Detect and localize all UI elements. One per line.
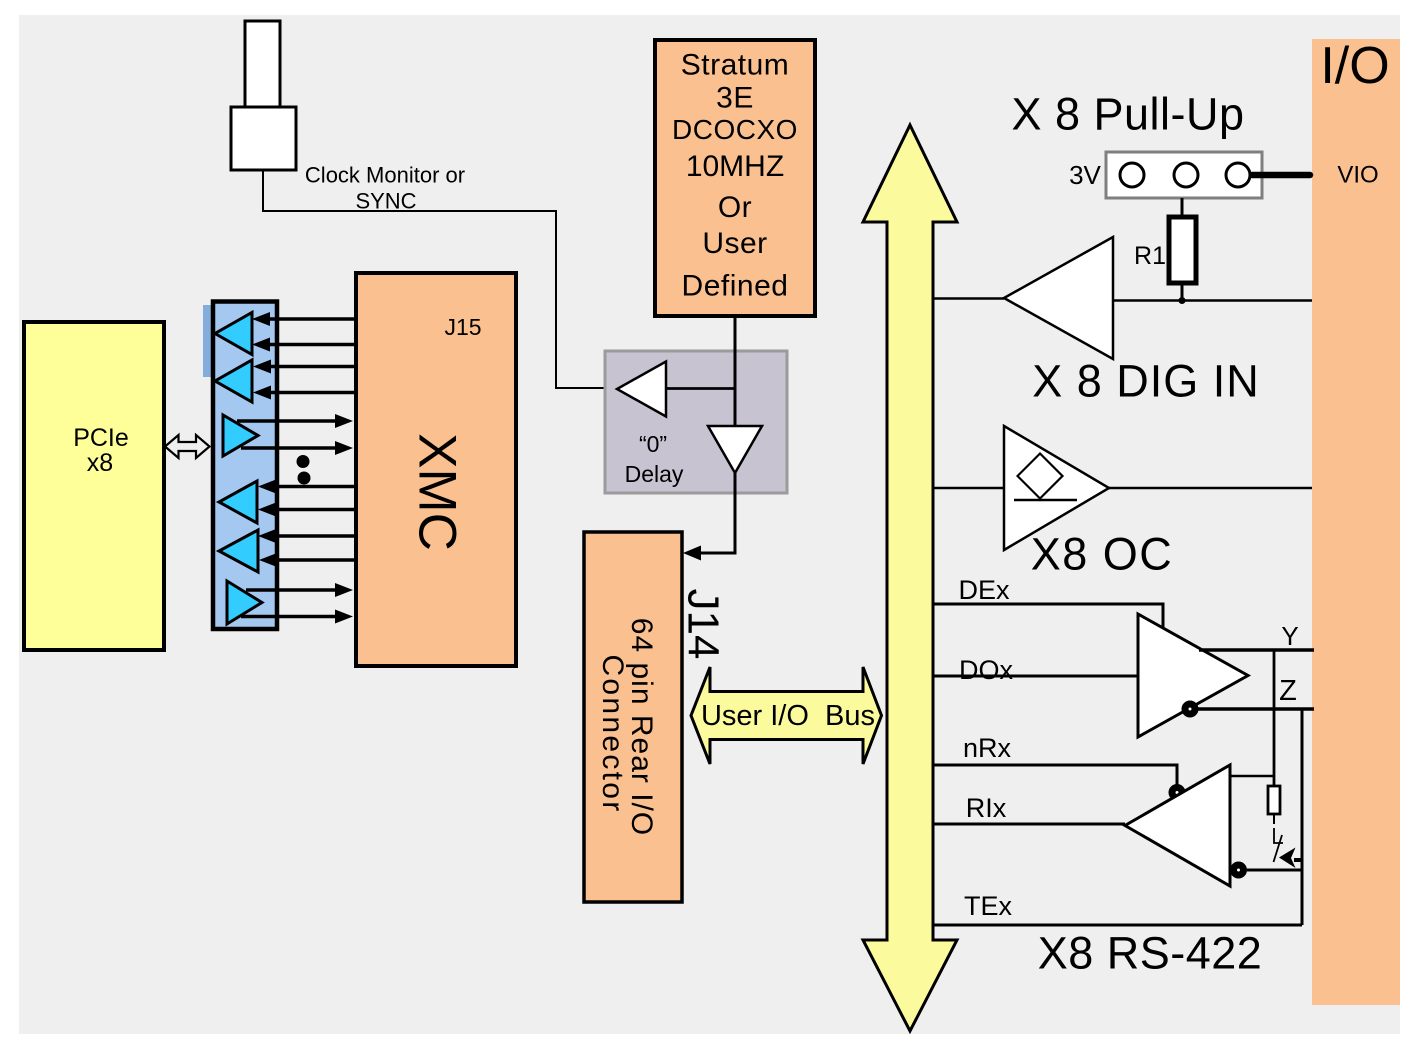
receiver U5 [1125, 765, 1230, 886]
svg-text:Y: Y [1281, 621, 1298, 651]
I/O bar [1312, 39, 1400, 1005]
wire Z [1198, 707, 1314, 711]
wire arrow A11 [246, 588, 341, 592]
wire arrow A12 [241, 615, 341, 619]
svg-text:Or: Or [718, 191, 752, 224]
wire Z to TEx vertical [1301, 709, 1304, 925]
svg-text:3V: 3V [1069, 160, 1101, 190]
Stratum oscillator block [655, 40, 815, 316]
svg-text:X8 OC: X8 OC [1031, 529, 1174, 580]
svg-text:X 8 Pull-Up: X 8 Pull-Up [1011, 89, 1244, 140]
wire dig-in right [1113, 299, 1312, 302]
buffer B2 [215, 360, 252, 402]
svg-text:DCOCXO: DCOCXO [672, 114, 798, 145]
buffer open-collector U3 [1004, 426, 1109, 550]
ellipsis dots [297, 455, 310, 468]
bubble driver Z [1185, 704, 1195, 714]
delay block [605, 351, 787, 493]
buffer B6 [227, 581, 262, 624]
wire oc left [933, 487, 1004, 490]
svg-text:Delay: Delay [625, 461, 684, 487]
wire arrow A1 [266, 317, 356, 321]
oc diamond symbol [1018, 454, 1063, 499]
wire delay internal [666, 387, 735, 390]
svg-text:3E: 3E [716, 82, 754, 115]
buffer dig-in U2 [1004, 237, 1113, 359]
svg-text:nRx: nRx [963, 733, 1012, 763]
resistor R1 [1169, 217, 1196, 283]
wire stratum to delay [734, 316, 737, 427]
svg-text:SYNC: SYNC [355, 189, 416, 214]
bubble nRx enable [1172, 788, 1182, 798]
wire arrow A9 [272, 534, 356, 538]
wire termination vertical [1273, 650, 1276, 786]
delay buffer left [617, 362, 666, 417]
wire arrow A4 [267, 391, 356, 395]
64 pin rear connector block [584, 532, 682, 902]
PCIe x8 block [24, 322, 164, 650]
jumper pin 3 [1226, 163, 1250, 187]
bubble receiver input [1234, 865, 1244, 875]
termination resistor [1268, 786, 1280, 814]
svg-text:Stratum: Stratum [681, 49, 790, 82]
svg-text:User I/O Bus: User I/O Bus [701, 700, 875, 732]
buffer B1 [215, 313, 252, 355]
wire arrow A7 [272, 485, 356, 489]
svg-text:x8: x8 [87, 449, 113, 477]
wire nRx [933, 765, 1177, 785]
user I/O bus arrow [691, 667, 882, 764]
wire receiver bottom [1247, 869, 1302, 872]
svg-text:X8 RS-422: X8 RS-422 [1038, 928, 1263, 979]
svg-text:R1: R1 [1134, 242, 1166, 270]
wire arrow A2 [266, 343, 356, 347]
wire jumper to R1 [1181, 198, 1184, 217]
svg-text:I/O: I/O [1320, 37, 1389, 95]
wire RIx [933, 823, 1125, 826]
vertical bus arrow [863, 125, 957, 1031]
svg-text:10MHZ: 10MHZ [686, 150, 784, 183]
wire arrow A3 [267, 365, 356, 369]
svg-text:User: User [702, 227, 767, 260]
wire arrow A6 [241, 446, 341, 450]
termination switch [1274, 828, 1283, 843]
delay buffer down [708, 426, 762, 473]
wire dig-in left [933, 297, 1004, 300]
XMC block J15 [356, 273, 516, 666]
buffer strip shadow [203, 305, 213, 377]
driver U4 [1138, 614, 1248, 737]
svg-text:Clock Monitor or: Clock Monitor or [305, 163, 465, 188]
wire Y [1199, 648, 1314, 652]
svg-text:RIx: RIx [966, 793, 1007, 823]
svg-text:PCIe: PCIe [73, 424, 129, 452]
svg-text:J14: J14 [679, 589, 728, 660]
wire delay to J14 [697, 473, 735, 553]
buffer B4 [219, 481, 257, 523]
svg-text:XMC: XMC [408, 433, 467, 551]
buffer bank box [213, 302, 277, 630]
svg-text:VIO: VIO [1337, 162, 1378, 189]
svg-text:“0”: “0” [639, 431, 667, 457]
wire clock monitor [263, 170, 618, 388]
oscillator Y1 [245, 21, 280, 107]
bidirectional arrow PCIe-XMC [165, 435, 210, 458]
wire arrow A10 [273, 558, 356, 562]
wire arrow A5 [237, 419, 341, 423]
svg-text:J15: J15 [444, 314, 481, 340]
wire VIO [1252, 172, 1310, 179]
wire receiver input top [1230, 775, 1274, 778]
svg-text:TEx: TEx [964, 891, 1013, 921]
svg-text:DOx: DOx [959, 655, 1014, 685]
wire arrow A8 [272, 508, 356, 512]
switch control arrow [1294, 858, 1302, 862]
svg-text:X 8 DIG IN: X 8 DIG IN [1032, 356, 1260, 407]
wire DEx [933, 604, 1163, 630]
svg-text:Defined: Defined [682, 270, 789, 303]
wire DOx [933, 675, 1138, 678]
wire TEx [933, 924, 1302, 927]
svg-text:Z: Z [1279, 675, 1297, 707]
buffer B3 [223, 415, 258, 456]
svg-text:DEx: DEx [958, 575, 1010, 605]
jumper pin 1 [1120, 163, 1144, 187]
wire oc right [1109, 487, 1312, 490]
jumper pin 2 [1174, 163, 1198, 187]
jumper block [1106, 152, 1262, 198]
buffer B5 [219, 530, 258, 572]
